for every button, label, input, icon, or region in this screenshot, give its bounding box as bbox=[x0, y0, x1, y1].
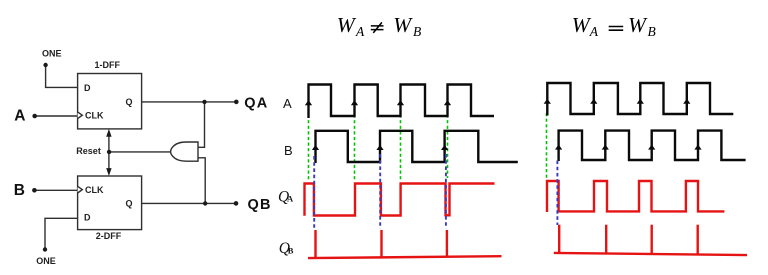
arrowhead B rise 3 (diagram 2) bbox=[648, 144, 655, 149]
blue dashed edge marker B1 rise 1 bbox=[313, 156, 315, 229]
svg-text:QB: QB bbox=[248, 197, 272, 213]
wire A to U1.CLK bbox=[35, 115, 78, 117]
waveform QB baseline (diagram 1, red) bbox=[308, 256, 502, 258]
svg-text:A: A bbox=[589, 24, 599, 39]
arrowhead A rise 2 (diagram 2) bbox=[590, 99, 597, 104]
svg-text:ONE: ONE bbox=[36, 256, 56, 266]
wire Reset node to AND gate output bbox=[109, 151, 171, 153]
title WA equal WB bbox=[572, 13, 656, 39]
QB pulse spike 1 (diagram 2) bbox=[558, 225, 560, 253]
arrowhead B rise 1 (diagram 1) bbox=[312, 145, 319, 150]
waveform B (diagram 2) bbox=[559, 131, 746, 161]
QB pulse spike 4 (diagram 2) bbox=[697, 225, 699, 255]
AND gate U3 (mirrored, output to left) bbox=[171, 142, 198, 161]
wire Reset vertical between U1 and U2 bbox=[108, 135, 110, 169]
waveform B (diagram 1) bbox=[316, 131, 518, 163]
svg-text:W: W bbox=[337, 13, 357, 37]
wire AND bottom input to QB net bbox=[198, 158, 205, 204]
blue dashed edge marker B2 rise 1 bbox=[556, 161, 558, 226]
waveform QA (diagram 1, red) bbox=[305, 184, 495, 216]
signal label QB (diagram 1) bbox=[279, 240, 294, 257]
svg-text:B: B bbox=[14, 182, 25, 199]
svg-text:A: A bbox=[355, 24, 365, 39]
arrowhead A rise 4 (diagram 1) bbox=[444, 100, 451, 105]
QB pulse spike 3 (diagram 2) bbox=[651, 225, 653, 254]
svg-text:B: B bbox=[288, 245, 294, 255]
arrowhead Reset into U2 (down) bbox=[106, 168, 111, 176]
wire ONE to U1.D bbox=[46, 65, 78, 87]
D flip-flop U2 (2-DFF) body bbox=[78, 176, 142, 230]
junction dot Reset node bbox=[107, 150, 111, 154]
arrowhead A rise 3 (diagram 1) bbox=[397, 100, 404, 105]
svg-text:A: A bbox=[287, 194, 294, 204]
svg-text:A: A bbox=[14, 108, 25, 125]
waveform QB baseline (diagram 2, red) bbox=[554, 253, 747, 255]
arrowhead Reset into U1 (up) bbox=[106, 129, 111, 137]
svg-text:2-DFF: 2-DFF bbox=[96, 231, 122, 241]
svg-text:B: B bbox=[413, 24, 421, 39]
green dashed edge marker A2 rise 1 bbox=[546, 113, 548, 179]
node dot ONE bottom bbox=[43, 247, 47, 251]
svg-text:A: A bbox=[283, 96, 292, 111]
svg-text:W: W bbox=[393, 13, 413, 37]
arrowhead B rise 4 (diagram 2) bbox=[694, 144, 701, 149]
svg-text:D: D bbox=[84, 213, 91, 223]
svg-text:Q: Q bbox=[126, 199, 133, 209]
wire ONE to U2.D bbox=[45, 218, 78, 249]
terminal dot QB bbox=[234, 201, 239, 206]
svg-text:W: W bbox=[628, 13, 648, 37]
arrowhead B rise 3 (diagram 1) bbox=[441, 145, 448, 150]
svg-text:W: W bbox=[572, 13, 592, 37]
arrowhead A rise 3 (diagram 2) bbox=[637, 99, 644, 104]
terminal dot QA bbox=[234, 100, 239, 105]
D flip-flop U1 CLK triangle bbox=[78, 112, 83, 119]
svg-text:B: B bbox=[284, 143, 293, 158]
waveform QA (diagram 2, red) bbox=[547, 181, 724, 212]
D flip-flop U2 CLK triangle bbox=[78, 186, 83, 193]
green dashed edge marker A1 rise 3 bbox=[400, 115, 402, 182]
junction dot QA net bbox=[202, 100, 206, 104]
junction dot QB net bbox=[203, 201, 207, 205]
arrowhead B rise 1 (diagram 2) bbox=[555, 144, 562, 149]
green dashed edge marker A1 rise 2 bbox=[354, 115, 356, 182]
waveform A (diagram 2) bbox=[547, 83, 733, 116]
svg-text:Q: Q bbox=[126, 97, 133, 107]
arrowhead A rise 1 (diagram 2) bbox=[544, 99, 551, 104]
terminal dot A bbox=[32, 114, 37, 119]
wire B to U2.CLK bbox=[34, 189, 77, 191]
title WA not equal WB bbox=[337, 13, 421, 39]
QB pulse spike 2 (diagram 2) bbox=[605, 225, 607, 254]
D flip-flop U1 (1-DFF) body bbox=[78, 74, 142, 129]
blue dashed edge marker B1 rise 3 bbox=[445, 154, 447, 229]
wire AND top input to QA net bbox=[198, 102, 205, 147]
svg-text:ONE: ONE bbox=[42, 49, 62, 59]
green dashed edge marker A1 rise 1 bbox=[308, 115, 310, 182]
terminal dot B bbox=[32, 188, 37, 193]
wire U2.Q to QB terminal bbox=[142, 202, 236, 204]
signal label QA (diagram 1) bbox=[278, 189, 294, 206]
arrowhead A rise 4 (diagram 2) bbox=[683, 99, 690, 104]
QB pulse spike 1 (diagram 1) bbox=[314, 230, 316, 258]
arrowhead A rise 2 (diagram 1) bbox=[351, 100, 358, 105]
green dashed edge marker A1 rise 4 bbox=[447, 115, 449, 179]
wire U1.Q to QA terminal bbox=[142, 101, 237, 103]
svg-text:D: D bbox=[84, 83, 91, 93]
QB pulse spike 3 (diagram 1) bbox=[446, 230, 448, 257]
QB pulse spike 2 (diagram 1) bbox=[380, 230, 382, 257]
waveform A (diagram 1) bbox=[309, 85, 495, 119]
svg-text:1-DFF: 1-DFF bbox=[95, 60, 121, 70]
node dot ONE top bbox=[43, 63, 47, 67]
svg-text:B: B bbox=[648, 24, 656, 39]
arrowhead B rise 2 (diagram 1) bbox=[376, 145, 383, 150]
blue dashed edge marker B1 rise 2 bbox=[379, 154, 381, 229]
arrowhead A rise 1 (diagram 1) bbox=[305, 100, 312, 105]
svg-text:CLK: CLK bbox=[85, 111, 104, 121]
svg-text:CLK: CLK bbox=[85, 185, 104, 195]
arrowhead B rise 2 (diagram 2) bbox=[602, 144, 609, 149]
svg-text:QA: QA bbox=[244, 95, 268, 111]
svg-text:Reset: Reset bbox=[76, 146, 101, 156]
